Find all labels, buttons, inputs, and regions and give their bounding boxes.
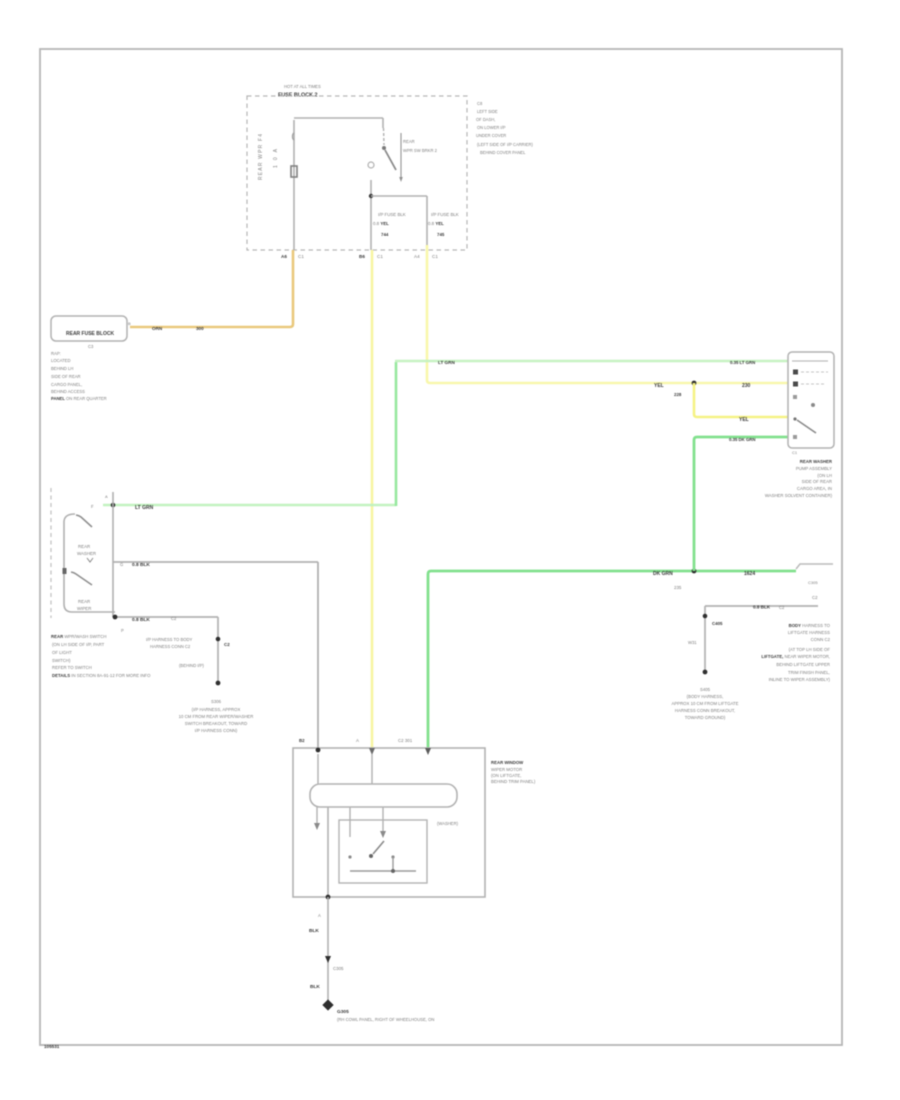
svg-text:OF DASH,: OF DASH,: [476, 117, 495, 122]
svg-text:0.8 BLK: 0.8 BLK: [753, 605, 771, 610]
svg-text:745: 745: [437, 232, 445, 237]
svg-text:1624: 1624: [744, 571, 755, 577]
svg-text:A4: A4: [414, 254, 420, 259]
junction block note: [51, 351, 107, 401]
svg-text:S405: S405: [700, 687, 711, 692]
svg-text:C2 301: C2 301: [398, 738, 413, 743]
liftgate connector C2: [796, 564, 833, 569]
svg-text:(ON LH: (ON LH: [817, 473, 832, 478]
svg-text:C1: C1: [298, 254, 304, 259]
svg-text:0.35 LT GRN: 0.35 LT GRN: [730, 360, 755, 365]
park switch enclosure: [339, 820, 427, 883]
svg-text:A: A: [318, 913, 321, 918]
svg-text:WPR SW BRKR 2: WPR SW BRKR 2: [403, 148, 438, 153]
svg-text:B2: B2: [299, 738, 305, 743]
momentary contact circle: [368, 162, 374, 168]
wire YEL drop to pin: [694, 383, 788, 417]
svg-text:I/P HARNESS CONN): I/P HARNESS CONN): [195, 728, 238, 733]
splice S306: [216, 681, 221, 686]
svg-text:APPROX 10 CM FROM LIFTGATE: APPROX 10 CM FROM LIFTGATE: [671, 701, 738, 706]
node S1: [692, 381, 697, 386]
svg-text:B6: B6: [359, 254, 365, 259]
branch label left: [373, 212, 406, 237]
svg-text:REFER TO SWITCH: REFER TO SWITCH: [52, 665, 92, 670]
svg-text:HARNESS CONN BREAKOUT,: HARNESS CONN BREAKOUT,: [675, 708, 735, 713]
svg-text:LT GRN: LT GRN: [135, 505, 154, 511]
pin labels row: [281, 254, 438, 259]
svg-text:DK GRN: DK GRN: [653, 571, 673, 577]
svg-text:CONN C2: CONN C2: [811, 637, 831, 642]
harness note mid: [146, 637, 204, 668]
svg-text:C3: C3: [88, 344, 94, 349]
liftgate harness label: [761, 623, 830, 682]
svg-text:300: 300: [196, 326, 204, 331]
svg-text:TRIM FINISH PANEL,: TRIM FINISH PANEL,: [788, 670, 830, 675]
svg-text:F: F: [91, 504, 94, 509]
svg-text:(WASHER): (WASHER): [437, 821, 459, 826]
svg-text:A: A: [105, 494, 108, 499]
node J4: [113, 615, 118, 620]
svg-text:LEFT SIDE: LEFT SIDE: [477, 109, 498, 114]
svg-text:BEHIND LIFTGATE UPPER: BEHIND LIFTGATE UPPER: [776, 662, 830, 667]
svg-text:REAR: REAR: [78, 599, 90, 604]
wire YEL vertical 2 to horizontal: [427, 245, 788, 383]
svg-text:(RH COWL PANEL, RIGHT OF WHEEL: (RH COWL PANEL, RIGHT OF WHEELHOUSE, ON: [337, 1017, 434, 1022]
wire DK GRN lower run: [428, 571, 796, 750]
vertical to splice: [704, 606, 706, 672]
svg-text:I/P HARNESS TO BODY: I/P HARNESS TO BODY: [146, 637, 193, 642]
svg-text:C2: C2: [779, 605, 785, 610]
svg-text:SWITCH): SWITCH): [52, 658, 71, 663]
junction block J2: [51, 316, 127, 341]
svg-text:0.8 YEL: 0.8 YEL: [373, 221, 389, 226]
svg-text:BLK: BLK: [309, 928, 319, 934]
fuse element wire: [293, 120, 295, 250]
svg-text:SWITCH BREAKOUT, TOWARD: SWITCH BREAKOUT, TOWARD: [185, 721, 247, 726]
svg-text:235: 235: [674, 585, 682, 590]
svg-text:C2: C2: [171, 616, 177, 621]
svg-text:744: 744: [381, 232, 389, 237]
rear wiper motor box: [293, 748, 485, 897]
svg-text:C2: C2: [224, 642, 230, 647]
svg-text:OF LIGHT: OF LIGHT: [52, 650, 72, 655]
svg-text:(LEFT SIDE OF I/P CARRIER): (LEFT SIDE OF I/P CARRIER): [477, 142, 533, 147]
svg-text:C1: C1: [792, 450, 798, 455]
svg-text:LT GRN: LT GRN: [438, 360, 455, 365]
switch common wire: [112, 492, 114, 617]
svg-text:UNDER COVER: UNDER COVER: [476, 133, 506, 138]
fuse element: [293, 133, 295, 140]
svg-text:CARGO PANEL,: CARGO PANEL,: [51, 382, 82, 387]
wire ORN vertical: [130, 250, 293, 327]
switch blade B: [63, 568, 67, 574]
svg-text:(I/P HARNESS, APPROX: (I/P HARNESS, APPROX: [192, 707, 241, 712]
svg-text:(ON LIFTGATE,: (ON LIFTGATE,: [491, 773, 521, 778]
node S2: [692, 569, 697, 574]
node at box bottom: [326, 895, 331, 900]
node C405: [703, 614, 708, 619]
park switch: [369, 854, 373, 858]
svg-text:DETAILS IN SECTION 8A-91-12 FO: DETAILS IN SECTION 8A-91-12 FOR MORE INF…: [52, 673, 151, 678]
svg-text:S306: S306: [211, 699, 222, 704]
svg-text:(ON LH SIDE OF I/P, PART: (ON LH SIDE OF I/P, PART: [52, 642, 105, 647]
switch contact: [382, 146, 386, 150]
switch blade: [385, 150, 396, 170]
switch actuator arrow: [400, 133, 402, 177]
svg-text:INLINE TO WIPER ASSEMBLY): INLINE TO WIPER ASSEMBLY): [769, 677, 831, 682]
svg-text:I/P FUSE BLK: I/P FUSE BLK: [378, 212, 406, 217]
svg-text:WIPER: WIPER: [77, 606, 91, 611]
svg-text:HARNESS CONN C2: HARNESS CONN C2: [150, 644, 191, 649]
svg-text:ON LOWER I/P: ON LOWER I/P: [477, 125, 506, 130]
node J3: [111, 503, 116, 508]
svg-text:G: G: [120, 562, 123, 567]
ground G305: [322, 999, 333, 1010]
washer pump connector box: [788, 352, 834, 448]
pin stubs: [317, 754, 319, 784]
svg-text:W31: W31: [688, 640, 697, 645]
ground wire BLK: [327, 897, 329, 1005]
svg-text:C1: C1: [432, 254, 438, 259]
svg-text:0.8 BLK: 0.8 BLK: [132, 562, 150, 568]
wire YEL vertical 1: [371, 250, 374, 748]
branch label right: [428, 212, 459, 237]
svg-text:TOWARD GROUND): TOWARD GROUND): [685, 715, 726, 720]
svg-text:C2: C2: [812, 595, 818, 600]
svg-text:0.8 BLK: 0.8 BLK: [132, 617, 150, 623]
body harness run right: [705, 605, 818, 607]
svg-text:(BEHIND I/P): (BEHIND I/P): [179, 663, 204, 668]
svg-text:YEL: YEL: [739, 417, 749, 423]
svg-text:BEHIND ACCESS: BEHIND ACCESS: [51, 389, 85, 394]
svg-text:(BODY HARNESS,: (BODY HARNESS,: [687, 694, 724, 699]
wire DK GRN riser to pin: [694, 437, 788, 571]
svg-text:LIFTGATE, NEAR WIPER MOTOR,: LIFTGATE, NEAR WIPER MOTOR,: [761, 654, 830, 659]
wire to body gray run: [113, 561, 318, 563]
svg-text:RAP:: RAP:: [51, 351, 61, 356]
I/P fuse block dashed box: [247, 96, 467, 250]
switch bottom wire: [115, 616, 218, 618]
svg-text:BODY HARNESS TO: BODY HARNESS TO: [789, 623, 831, 628]
svg-text:WASHER: WASHER: [77, 551, 96, 556]
switch SW1 feed wire: [294, 117, 383, 119]
washer pump label: [765, 459, 833, 498]
svg-text:230: 230: [742, 383, 751, 389]
svg-text:10 CM FROM REAR WIPER/WASHER: 10 CM FROM REAR WIPER/WASHER: [179, 714, 254, 719]
svg-text:0.8 YEL: 0.8 YEL: [428, 221, 444, 226]
svg-text:CARGO AREA, IN: CARGO AREA, IN: [797, 486, 832, 491]
svg-text:LOCATED: LOCATED: [51, 358, 70, 363]
svg-text:C1: C1: [377, 254, 383, 259]
svg-text:228: 228: [674, 392, 682, 397]
svg-text:BEHIND COVER PANEL: BEHIND COVER PANEL: [480, 150, 526, 155]
svg-text:A: A: [356, 738, 359, 743]
pin terminals: [316, 748, 321, 753]
svg-text:REAR WINDOW: REAR WINDOW: [491, 760, 524, 765]
svg-text:I/P FUSE BLK: I/P FUSE BLK: [431, 212, 459, 217]
wire branch: [371, 195, 427, 197]
svg-text:BEHIND LH: BEHIND LH: [51, 366, 73, 371]
svg-text:BLK: BLK: [310, 984, 320, 990]
svg-text:BEHIND TRIM PANEL): BEHIND TRIM PANEL): [491, 779, 536, 784]
svg-text:REAR WASHER: REAR WASHER: [800, 459, 833, 464]
wiper switch label block: [51, 634, 151, 678]
splice S405: [703, 670, 708, 675]
svg-text:B: B: [128, 321, 131, 326]
motor body: [310, 784, 457, 807]
svg-text:10A: 10A: [273, 148, 279, 168]
svg-text:SIDE OF REAR: SIDE OF REAR: [51, 374, 81, 379]
wire corner down: [317, 562, 319, 748]
svg-text:C305: C305: [333, 966, 344, 971]
svg-text:REAR FUSE BLOCK: REAR FUSE BLOCK: [66, 331, 114, 337]
svg-text:REAR WPR F4: REAR WPR F4: [258, 134, 264, 180]
svg-text:WIPER MOTOR: WIPER MOTOR: [491, 767, 522, 772]
svg-text:PANEL ON REAR QUARTER: PANEL ON REAR QUARTER: [51, 396, 107, 401]
svg-text:YEL: YEL: [654, 383, 664, 389]
svg-text:HOT AT ALL TIMES: HOT AT ALL TIMES: [284, 84, 321, 89]
svg-text:(AT TOP LH SIDE OF: (AT TOP LH SIDE OF: [789, 647, 831, 652]
svg-text:A6: A6: [281, 254, 287, 259]
switch blade A: [76, 515, 92, 527]
node J1: [369, 194, 373, 198]
svg-text:WASHER SOLVENT CONTAINER): WASHER SOLVENT CONTAINER): [765, 493, 833, 498]
svg-text:REAR: REAR: [78, 544, 90, 549]
svg-text:LIFTGATE HARNESS: LIFTGATE HARNESS: [788, 630, 830, 635]
svg-text:REAR WPR/WASH SWITCH: REAR WPR/WASH SWITCH: [51, 634, 106, 639]
svg-text:105531: 105531: [44, 1044, 60, 1049]
svg-text:REAR: REAR: [403, 139, 415, 144]
node C2 inline: [216, 637, 221, 642]
svg-text:G305: G305: [337, 1009, 349, 1015]
svg-text:C405: C405: [712, 621, 723, 626]
fuse block location note: [476, 101, 533, 155]
motor pins below: [316, 807, 318, 823]
wire LT GRN switch run: [103, 504, 396, 507]
wire corner to splice: [217, 617, 219, 683]
svg-text:SIDE OF REAR: SIDE OF REAR: [802, 479, 832, 484]
svg-text:C8: C8: [477, 101, 483, 106]
svg-text:PUMP ASSEMBLY: PUMP ASSEMBLY: [796, 466, 832, 471]
wiper switch bracket: [64, 514, 115, 612]
svg-text:P: P: [121, 628, 124, 633]
wire LT GRN riser: [395, 362, 398, 506]
motor label: [491, 760, 536, 784]
svg-text:ORN: ORN: [152, 326, 163, 331]
switch output wire: [370, 180, 372, 250]
svg-text:0.35 DK GRN: 0.35 DK GRN: [729, 437, 756, 442]
svg-text:C305: C305: [808, 580, 818, 585]
left wiper switch dashed line: [50, 488, 52, 618]
